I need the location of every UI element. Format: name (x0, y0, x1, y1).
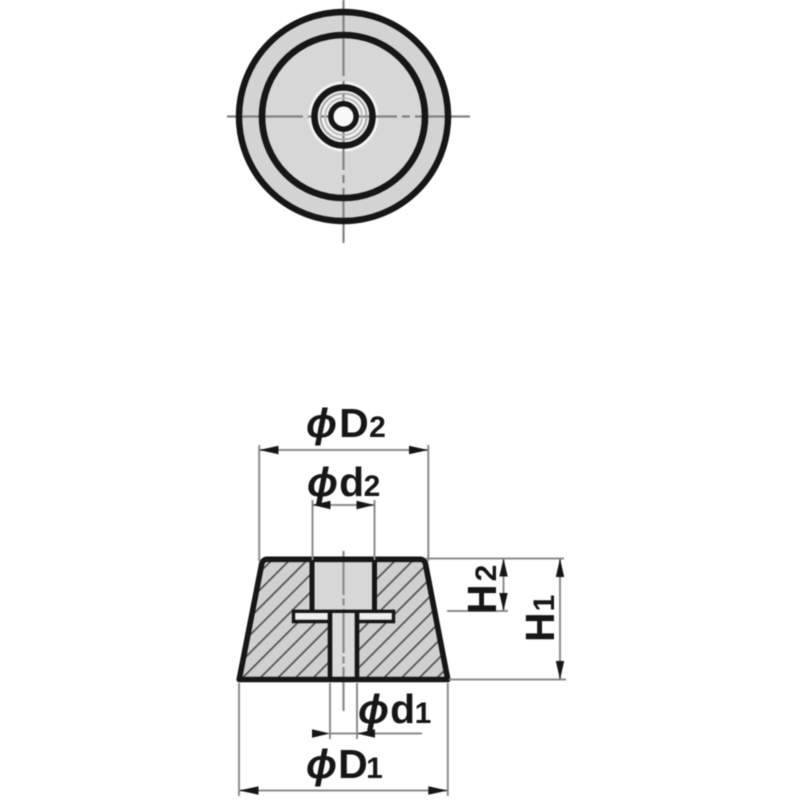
D2 left extension line (258, 445, 260, 561)
top view faint thread ring A (321, 94, 367, 140)
top view counterbore circle d2 (315, 88, 373, 146)
top view vertical centerline (342, 0, 344, 243)
H1 top arrow (556, 559, 564, 578)
section vertical centerline (342, 551, 344, 711)
counterbore hole d2 interior (312, 562, 375, 611)
d2 dimension line (313, 504, 375, 506)
top view gray body fill (239, 12, 448, 221)
D1 right arrow (428, 786, 448, 794)
top view faint thread ring B (325, 98, 362, 135)
top view center white zone (309, 82, 379, 152)
top view hole circle d1 (331, 104, 356, 129)
d1 right extension line (356, 683, 358, 739)
H1 dimension line (559, 559, 561, 680)
top view inner face fill (265, 38, 422, 195)
D1 left extension line (238, 683, 240, 796)
top view outer circle D1 (239, 12, 448, 221)
d2 left arrow (313, 501, 331, 509)
section outline (239, 559, 448, 679)
H1 bottom arrow (556, 661, 564, 680)
top view top-face circle D2 (262, 35, 425, 198)
washer slot right end cap (392, 610, 395, 624)
washer slot left end cap (292, 610, 295, 624)
d2 right arrow (357, 501, 375, 509)
d1 left arrow (outside) (312, 729, 330, 737)
section body hatched trapezoid (239, 559, 448, 679)
washer slot left wing bottom line (292, 620, 331, 623)
counterbore right wall (372, 560, 377, 611)
H2 dimension line (503, 559, 505, 612)
H2 top arrow (499, 559, 507, 577)
D1 right extension line (447, 683, 449, 796)
H1 bottom extension line (449, 679, 566, 681)
washer slot right wing bottom line (356, 620, 395, 623)
D2 dimension line (259, 449, 428, 451)
hole d1 right wall (355, 611, 360, 679)
hole d1 interior (330, 611, 357, 680)
D2 left arrow (259, 446, 278, 454)
d1 right tail line (357, 733, 422, 735)
hole d1 left wall (328, 611, 333, 679)
washer slot interior (294, 611, 394, 622)
top view horizontal centerline (227, 115, 470, 117)
d1 dimension line (330, 733, 357, 735)
H2 bottom extension line (447, 610, 508, 612)
D2 right extension line (427, 445, 429, 561)
D2 right arrow (409, 446, 428, 454)
counterbore left wall (310, 560, 315, 611)
washer slot top line (292, 610, 395, 613)
top face extension line (426, 558, 564, 560)
d2 left extension line (312, 500, 314, 560)
d1 right arrow (outside) (357, 729, 375, 737)
H2 bottom arrow (499, 593, 507, 611)
D1 left arrow (239, 786, 259, 794)
d2 right extension line (374, 500, 376, 560)
d1 left extension line (329, 683, 331, 739)
D1 dimension line (239, 790, 448, 792)
